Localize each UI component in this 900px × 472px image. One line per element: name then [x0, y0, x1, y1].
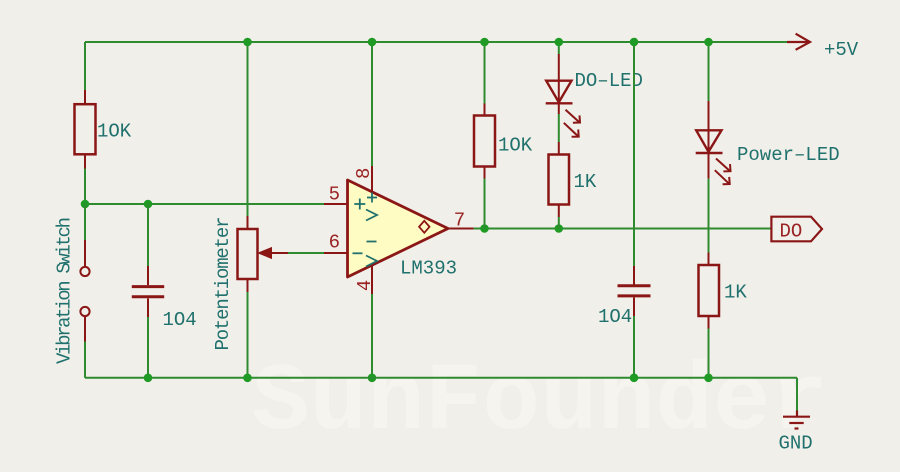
junction node	[368, 374, 377, 383]
vibration switch SW1	[80, 240, 89, 342]
op-amp V- mark	[366, 242, 377, 267]
pin 6 lead	[324, 252, 348, 254]
junction node	[704, 38, 713, 47]
junction node	[555, 224, 564, 233]
op-amp plus input mark	[354, 199, 365, 210]
svg-text:SunFounder: SunFounder	[252, 348, 828, 457]
wire Power-LED branch	[708, 42, 710, 101]
junction node	[480, 224, 489, 233]
wire LED to resistor R3	[558, 114, 560, 142]
pin 5 lead	[324, 203, 348, 205]
wire horizontal pin5 net	[85, 203, 324, 205]
junction node	[480, 38, 489, 47]
wire down to ground	[796, 378, 798, 411]
open collector diamond	[419, 221, 429, 233]
wire switch to bottom rail	[84, 342, 86, 378]
capacitor C2 104	[618, 266, 651, 316]
wire resistor R2 branch	[484, 42, 486, 104]
wire capacitor to bottom rail	[147, 317, 149, 378]
svg-text:6: 6	[329, 232, 340, 254]
capacitor C1 104	[132, 266, 164, 317]
wire wiper to pin 6	[288, 252, 324, 254]
pin 4 lead	[371, 265, 373, 378]
LED D2 Power-LED	[696, 101, 723, 179]
svg-text:GND: GND	[779, 432, 813, 454]
wire LED D2 to resistor R4	[708, 179, 710, 253]
wire resistor R3 to DO net	[558, 217, 560, 229]
wire capacitor C2 branch	[633, 42, 635, 266]
svg-text:+5V: +5V	[824, 39, 859, 61]
wire capacitor C1 branch	[147, 204, 149, 266]
junction node	[368, 38, 377, 47]
wire left vertical upper	[84, 42, 86, 90]
svg-text:Potentiometer: Potentiometer	[212, 217, 234, 351]
svg-text:DO–LED: DO–LED	[575, 70, 643, 92]
svg-text:1O4: 1O4	[163, 309, 197, 331]
svg-text:1K: 1K	[724, 282, 747, 304]
resistor R2 10K	[474, 104, 495, 179]
svg-text:LM393: LM393	[400, 258, 457, 280]
svg-text:1OK: 1OK	[498, 135, 533, 157]
svg-text:8: 8	[353, 168, 375, 179]
potentiometer wiper arrow	[258, 248, 288, 259]
wire +5V top rail	[85, 41, 787, 43]
junction node	[243, 38, 252, 47]
resistor R1 10K leads	[84, 90, 86, 169]
svg-text:Power–LED: Power–LED	[737, 144, 840, 166]
power symbol +5V arrow	[787, 34, 810, 50]
LED D1 DO-LED	[546, 54, 573, 114]
resistor R1 10K	[75, 104, 96, 154]
wire capacitor C2 to bottom rail	[633, 316, 635, 378]
op-amp U1 LM393 body	[348, 180, 449, 277]
pin 7 lead	[448, 228, 474, 230]
svg-text:4: 4	[354, 280, 376, 291]
wire left vertical to node	[84, 169, 86, 205]
junction node	[81, 200, 90, 209]
junction node	[144, 200, 153, 209]
ground	[783, 411, 810, 429]
op-amp minus input mark	[353, 252, 363, 254]
svg-text:7: 7	[454, 210, 465, 232]
svg-text:1OK: 1OK	[97, 120, 132, 142]
wire bottom GND rail	[85, 377, 797, 379]
junction node	[144, 374, 153, 383]
junction node	[243, 374, 252, 383]
resistor R4 1K	[699, 253, 720, 329]
LED D1 emission arrows	[564, 110, 580, 137]
hierarchical label DO	[771, 217, 822, 243]
potentiometer RV1	[238, 216, 258, 292]
svg-text:Vibration Switch: Vibration Switch	[54, 217, 76, 364]
wire switch branch	[84, 204, 86, 240]
svg-text:1K: 1K	[574, 171, 597, 193]
junction node	[630, 374, 639, 383]
junction node	[630, 38, 639, 47]
wire potentiometer to bottom rail	[247, 292, 249, 378]
wire DO-LED branch	[558, 42, 560, 54]
svg-text:DO: DO	[780, 220, 803, 242]
op-amp V+ mark	[366, 193, 377, 221]
wire potentiometer branch from top	[247, 42, 249, 216]
wire resistor R2 to DO net	[484, 179, 486, 229]
pin 8 lead	[371, 42, 373, 192]
wire resistor R4 to bottom rail	[708, 329, 710, 378]
wire DO net	[474, 228, 772, 230]
LED D2 emission arrows	[715, 159, 731, 185]
svg-text:5: 5	[329, 183, 340, 205]
svg-text:1O4: 1O4	[598, 306, 632, 328]
junction node	[555, 38, 564, 47]
junction node	[704, 374, 713, 383]
resistor R3 1K	[549, 142, 570, 217]
